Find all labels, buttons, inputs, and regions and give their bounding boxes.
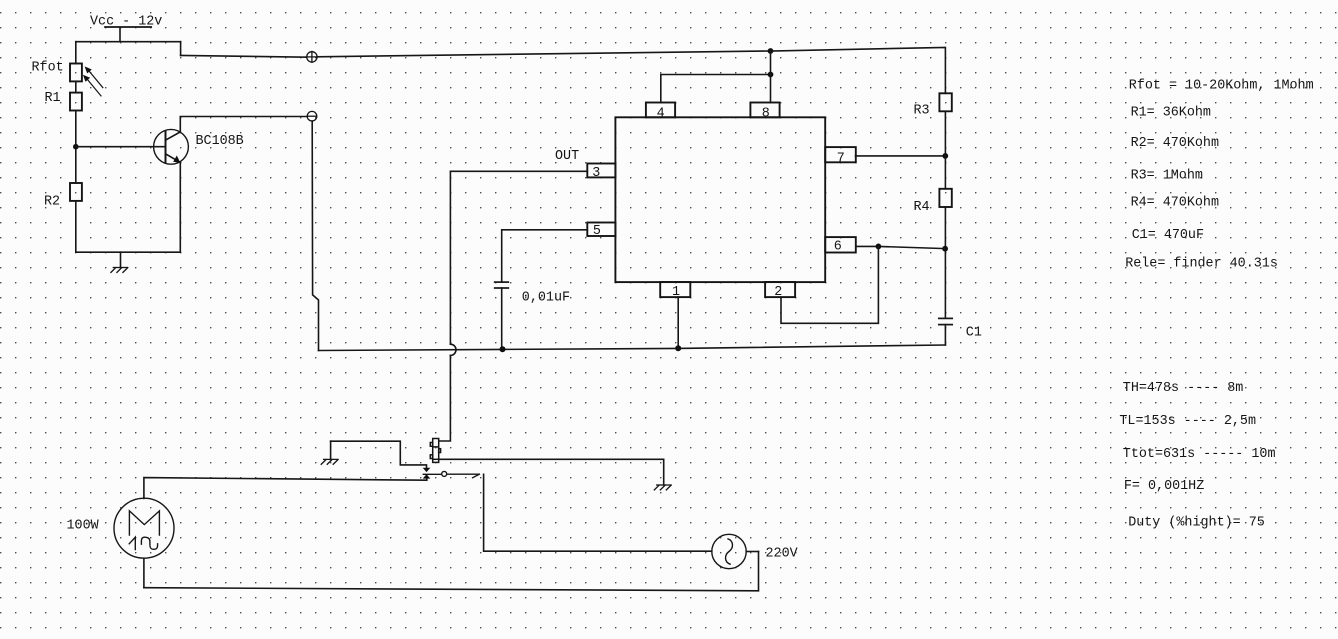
wire coil to right ground <box>439 459 664 485</box>
relay contact arrow NO <box>423 474 431 478</box>
wire pin8 vertical <box>770 51 772 103</box>
wire bottom return rail <box>144 552 759 591</box>
svg-text:220V: 220V <box>766 547 798 562</box>
svg-text:Ttot=631s ----- 10m: Ttot=631s ----- 10m <box>1123 447 1276 462</box>
pin 2 <box>765 282 795 300</box>
wire rail step down <box>180 42 182 56</box>
junction dot pin4/pin8 <box>768 72 774 78</box>
wire Rfot to R1 <box>75 81 77 92</box>
wire R3 to R4 <box>944 111 946 189</box>
pin 7 <box>825 147 856 167</box>
svg-text:R2= 470Kohm: R2= 470Kohm <box>1131 136 1219 151</box>
svg-text:F= 0,001HZ: F= 0,001HZ <box>1124 479 1204 494</box>
wire C1 to ground rail <box>944 325 946 345</box>
motor M1 100W <box>114 498 174 558</box>
wire rail to plus connector <box>181 55 307 57</box>
pin 5 <box>587 223 615 240</box>
svg-text:Rfot: Rfot <box>32 60 64 75</box>
pin 1 <box>660 282 690 300</box>
svg-text:3: 3 <box>592 166 600 181</box>
junction dot pin6/pin2 <box>876 244 882 250</box>
capacitor C1 <box>939 318 952 324</box>
wire top-left rail horizontal <box>76 41 181 43</box>
relay contact pivot <box>442 471 447 476</box>
wire bottom-left rail <box>76 251 181 253</box>
svg-text:R1: R1 <box>45 91 61 106</box>
wire R4 to C1 <box>944 207 946 318</box>
Rfot light arrow 1 <box>85 66 103 87</box>
svg-text:R3= 1Mohm: R3= 1Mohm <box>1131 168 1203 183</box>
wire AC right <box>746 551 758 553</box>
junction dot base node <box>73 144 79 150</box>
IC U1 555 body <box>615 117 825 282</box>
svg-text:0,01uF: 0,01uF <box>522 290 570 305</box>
ground right <box>654 485 671 490</box>
AC source V1 <box>712 534 746 568</box>
wire pin6 <box>856 246 945 248</box>
svg-text:6: 6 <box>834 239 842 254</box>
photoresistor Rfot <box>70 64 82 82</box>
wire OUT down to relay coil <box>439 355 451 441</box>
svg-text:Rfot = 10-20Kohm, 1Mohm: Rfot = 10-20Kohm, 1Mohm <box>1129 79 1314 94</box>
capacitor 0,01uF <box>495 282 509 288</box>
svg-text:R3: R3 <box>914 104 930 119</box>
svg-text:100W: 100W <box>67 518 100 533</box>
svg-text:C1: C1 <box>966 326 982 341</box>
svg-text:Rele= finder 40.31s: Rele= finder 40.31s <box>1125 256 1278 271</box>
svg-text:R2: R2 <box>44 195 60 210</box>
relay contact arm <box>423 474 479 478</box>
wire minus connector down to ground rail <box>312 121 318 350</box>
resistor R2 <box>70 183 82 201</box>
svg-text:R4= 470Kohm: R4= 470Kohm <box>1131 195 1219 210</box>
ground left <box>111 268 128 273</box>
junction dot pin1/rail <box>675 345 681 351</box>
wire collector up <box>180 117 307 132</box>
svg-text:Duty (%hight)= 75: Duty (%hight)= 75 <box>1128 515 1265 530</box>
transistor Q1 BC108B <box>154 129 189 164</box>
svg-text:TL=153s ---- 2,5m: TL=153s ---- 2,5m <box>1119 414 1256 429</box>
wire rail plus to pin8 node <box>317 51 770 57</box>
junction dot pin7 node <box>942 153 948 159</box>
wire left rail to Rfot <box>75 42 77 64</box>
junction dot pin6 node <box>942 246 948 252</box>
svg-text:8: 8 <box>762 106 770 121</box>
connector symbol minus <box>307 111 317 121</box>
wire ground stub <box>120 252 122 267</box>
resistor R3 <box>939 93 951 111</box>
svg-text:7: 7 <box>837 152 845 167</box>
wire pin2 loop to pin6 <box>781 246 878 323</box>
wire pin5 <box>502 230 588 282</box>
svg-text:BC108B: BC108B <box>196 134 244 149</box>
resistor R1 <box>70 93 82 111</box>
wire lamp bottom <box>143 558 145 588</box>
wire rail to right column <box>771 47 946 93</box>
junction dot rail/pin8 <box>768 48 774 54</box>
connector symbol plus <box>306 51 317 62</box>
pin 3 <box>587 164 615 181</box>
resistor R4 <box>939 189 951 207</box>
svg-text:C1= 470uF: C1= 470uF <box>1132 228 1204 243</box>
Rfot light arrow 2 <box>83 75 101 96</box>
wire contact ground stub <box>330 441 332 459</box>
relay contact arrow NC <box>423 468 431 472</box>
transistor emitter arrow <box>173 156 180 164</box>
relay coil K1 <box>430 439 440 463</box>
wire Vcc stub <box>119 28 121 42</box>
svg-text:4: 4 <box>657 106 665 121</box>
svg-text:R1= 36Kohm: R1= 36Kohm <box>1131 105 1211 120</box>
wire base <box>76 146 166 148</box>
ground rail long <box>319 345 946 351</box>
svg-text:5: 5 <box>593 224 601 239</box>
svg-text:R4: R4 <box>914 200 930 215</box>
wire R1 to R2 <box>75 111 77 184</box>
wire pin7 <box>856 155 946 157</box>
junction dot cap/rail <box>500 346 506 352</box>
svg-text:TH=478s ---- 8m: TH=478s ---- 8m <box>1123 381 1244 396</box>
wire ground to contact top <box>331 441 427 468</box>
wire pin1 down <box>677 297 679 348</box>
pin 8 <box>750 103 779 122</box>
svg-text:OUT: OUT <box>555 149 579 164</box>
pin 6 <box>825 237 856 254</box>
wire pin3 OUT <box>450 171 587 344</box>
wire cap to ground rail <box>501 288 503 349</box>
wire pin4 to top rail <box>661 75 771 103</box>
wire lamp to contact NO <box>144 478 427 499</box>
ground contact <box>321 459 338 464</box>
wire R2 to ground rail <box>75 201 77 252</box>
wire contact to AC source <box>484 474 712 551</box>
pin 4 <box>646 103 675 122</box>
wire emitter down <box>179 162 181 252</box>
Vcc power bar <box>105 26 151 28</box>
wire hop over ground rail <box>450 344 456 355</box>
